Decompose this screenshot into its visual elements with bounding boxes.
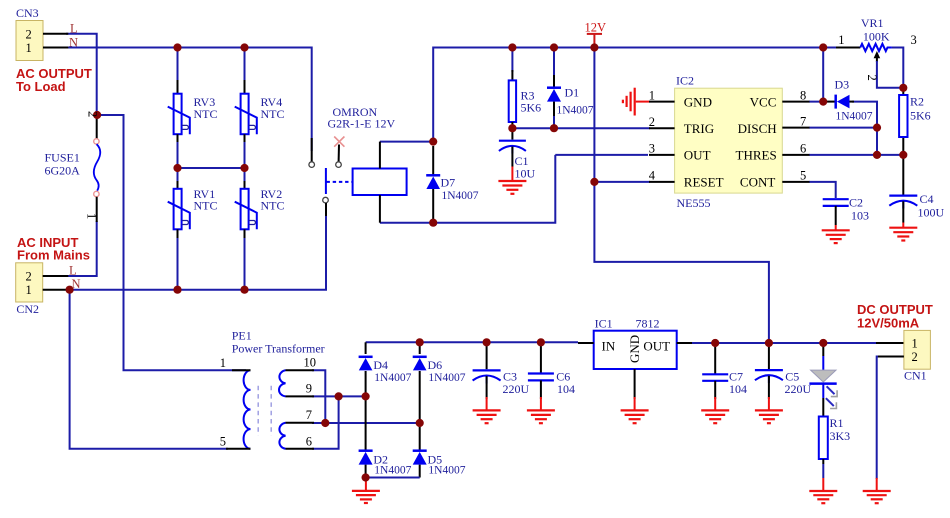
capacitor C2 (823, 199, 849, 229)
svg-text:IC2: IC2 (676, 74, 694, 88)
wire D1 top lead (553, 48, 555, 76)
svg-text:12V: 12V (585, 21, 607, 35)
svg-text:C4: C4 (920, 192, 934, 206)
svg-text:104: 104 (729, 382, 747, 396)
wire THRES pin6 (809, 154, 903, 156)
svg-text:TRIG: TRIG (684, 121, 714, 136)
svg-text:1: 1 (912, 336, 918, 350)
wire D6-D5 link (419, 371, 421, 451)
svg-text:1N4007: 1N4007 (557, 104, 594, 116)
resistor R2 (899, 95, 907, 137)
fuse FUSE1 (94, 115, 101, 222)
svg-text:1: 1 (838, 33, 844, 47)
svg-text:OUT: OUT (643, 339, 670, 354)
svg-text:G2R-1-E 12V: G2R-1-E 12V (328, 116, 396, 130)
wire D6 top lead (419, 342, 421, 354)
op-amp IC2 NE555 box (649, 88, 810, 193)
svg-text:Power Transformer: Power Transformer (232, 342, 325, 356)
wire transformer pin10 riser (312, 370, 325, 423)
svg-text:1N4007: 1N4007 (442, 190, 479, 202)
wire bridge + rail to IC1 IN (366, 341, 578, 343)
ground IC1 (621, 410, 649, 423)
svg-text:9: 9 (306, 381, 312, 395)
diode D3 (823, 95, 854, 109)
regulator IC1 7812 box (578, 331, 692, 410)
diode D7 (426, 175, 440, 189)
wire RV2 top lead (244, 168, 246, 183)
svg-text:CONT: CONT (740, 175, 775, 190)
svg-text:220U: 220U (503, 382, 530, 396)
svg-text:CN2: CN2 (16, 302, 39, 316)
wire relay coil top to D7 top node (380, 141, 433, 143)
diode D4 (359, 357, 373, 371)
svg-text:THRES: THRES (736, 148, 777, 163)
svg-text:CN3: CN3 (16, 6, 39, 20)
svg-text:1: 1 (26, 283, 32, 297)
wire top bus left (CN3 N to relay left contact) (66, 48, 312, 152)
ground CN1 pin2 (863, 478, 891, 503)
wire D5 bottom lead (419, 465, 421, 478)
svg-text:5: 5 (800, 169, 806, 183)
svg-text:NTC: NTC (194, 107, 218, 121)
svg-text:VR1: VR1 (861, 16, 884, 30)
transformer core (258, 386, 271, 436)
svg-text:1N4007: 1N4007 (374, 465, 411, 477)
svg-text:CN1: CN1 (904, 368, 927, 382)
ground C6 (527, 410, 555, 423)
svg-text:10U: 10U (515, 167, 536, 181)
svg-text:N: N (69, 35, 78, 49)
svg-text:L: L (69, 264, 77, 278)
svg-text:IC1: IC1 (595, 317, 613, 331)
wire D7 bottom black lead continuation (432, 146, 434, 175)
svg-text:100U: 100U (918, 206, 945, 220)
wire VR1 pin3 corner (892, 48, 904, 88)
svg-text:D7: D7 (441, 176, 456, 190)
wire CN3 L down to fuse (66, 34, 97, 113)
ground C2 (822, 230, 850, 243)
wire pin9-pin6 link (312, 396, 339, 448)
svg-text:2: 2 (26, 27, 32, 41)
svg-text:6G20A: 6G20A (45, 164, 81, 178)
svg-text:IN: IN (602, 339, 616, 354)
wire RV3 top lead (177, 48, 179, 83)
svg-text:1: 1 (85, 213, 99, 219)
svg-text:FUSE1: FUSE1 (45, 151, 80, 165)
transformer secondary upper (279, 370, 314, 396)
svg-text:D6: D6 (428, 358, 443, 372)
svg-text:DISCH: DISCH (738, 121, 777, 136)
capacitor C6 (528, 342, 554, 410)
svg-text:D1: D1 (565, 86, 580, 100)
wire transformer pin9 to bridge (312, 395, 366, 397)
wire CN2 N down to transformer pin5 (70, 290, 228, 449)
svg-text:7: 7 (800, 114, 806, 128)
wire RV mid row (178, 140, 245, 168)
LED D-led (809, 343, 837, 417)
power ground at 555 pin1 (623, 88, 650, 116)
svg-text:RESET: RESET (684, 175, 724, 190)
wire D3 anode to R2 column (852, 102, 877, 155)
svg-text:1N4007: 1N4007 (428, 465, 465, 477)
connector CN3 (16, 21, 68, 61)
wire RV2 bottom lead (244, 236, 246, 290)
thermistor RV1 (168, 181, 190, 238)
svg-text:103: 103 (851, 209, 869, 223)
svg-text:8: 8 (800, 88, 806, 102)
wire 12V rail down + RESET + to DC rail (594, 48, 769, 344)
svg-text:3K3: 3K3 (830, 429, 851, 443)
svg-text:NE555: NE555 (677, 196, 711, 210)
svg-text:2: 2 (26, 269, 32, 283)
svg-text:2: 2 (86, 111, 100, 117)
ground C7 (701, 410, 729, 423)
svg-text:1: 1 (26, 41, 32, 55)
relay coil OMRON (353, 142, 407, 223)
wire D2 bottom lead (365, 465, 367, 478)
wire TRIG row pin2 (512, 127, 650, 129)
ground C4 (889, 228, 917, 241)
svg-text:100K: 100K (863, 30, 890, 44)
wire CN1 pin2 to ground (877, 357, 901, 480)
wire RESET pin4 (594, 181, 650, 183)
wire D4 bottom lead (365, 371, 367, 451)
thermistor RV3 (168, 80, 190, 142)
connector CN1 (878, 330, 930, 369)
wire fuse bottom to CN2 L (66, 221, 97, 276)
wire bridge bottom rail (366, 477, 420, 479)
12V power symbol (587, 34, 602, 44)
svg-text:NTC: NTC (261, 107, 285, 121)
relay pole (323, 168, 353, 216)
svg-text:VCC: VCC (750, 95, 777, 110)
wire RV4 top lead (244, 48, 246, 83)
svg-text:1N4007: 1N4007 (428, 372, 465, 384)
wire DC rail right of IC1 (690, 342, 878, 344)
svg-text:104: 104 (557, 382, 575, 396)
svg-text:1: 1 (220, 356, 226, 370)
svg-text:5K6: 5K6 (910, 109, 931, 123)
svg-text:4: 4 (649, 169, 656, 183)
diode D1 (547, 75, 561, 128)
relay contact right with X (334, 137, 344, 168)
wire bridge top corner (365, 342, 367, 354)
svg-text:2: 2 (865, 75, 879, 81)
diode D5 (413, 451, 427, 465)
relay contact left (309, 138, 315, 167)
potentiometer VR1 (836, 44, 901, 88)
svg-text:D3: D3 (835, 78, 850, 92)
capacitor C5 (755, 343, 783, 410)
diode D6 (413, 357, 427, 371)
svg-text:6: 6 (800, 142, 806, 156)
wire DISCH pin7 (809, 127, 877, 129)
wire R2 bottom to THRES (902, 137, 904, 155)
ground bridge (352, 478, 380, 504)
wire N rail bottom (66, 214, 326, 290)
svg-text:1: 1 (649, 88, 655, 102)
svg-text:To Load: To Load (16, 79, 66, 94)
wire 555 OUT pin3 (555, 154, 648, 156)
svg-text:5: 5 (220, 435, 226, 449)
wire C4 top lead (902, 155, 904, 195)
capacitor C1 (499, 128, 526, 180)
svg-text:GND: GND (684, 95, 712, 110)
svg-text:L: L (70, 22, 78, 36)
capacitor C4 (889, 196, 917, 227)
resistor R3 (509, 70, 516, 128)
wire D7 top bus riser (433, 48, 836, 142)
svg-text:6: 6 (306, 434, 312, 448)
svg-text:5K6: 5K6 (521, 101, 542, 115)
svg-text:1N4007: 1N4007 (836, 111, 873, 123)
svg-text:PE1: PE1 (232, 329, 252, 343)
connector CN2 (16, 263, 69, 302)
svg-text:1N4007: 1N4007 (374, 372, 411, 384)
transformer PE1 primary (226, 370, 251, 449)
svg-text:2: 2 (649, 115, 655, 129)
svg-text:R2: R2 (910, 95, 924, 109)
thermistor RV2 (235, 181, 257, 238)
capacitor C3 (473, 342, 501, 410)
wire VCC pin8 riser (809, 48, 823, 102)
svg-text:10: 10 (304, 356, 317, 370)
wire relay coil bottom to OUT net (380, 155, 555, 223)
wire transformer pin7 to bridge (312, 422, 420, 424)
diode D2 (359, 451, 373, 465)
svg-text:NTC: NTC (194, 199, 218, 213)
capacitor C7 (702, 343, 728, 410)
svg-text:7: 7 (306, 408, 312, 422)
wire R3 top lead (511, 48, 513, 73)
svg-text:GND: GND (627, 335, 642, 363)
ground C1 (498, 181, 526, 194)
svg-text:NTC: NTC (261, 199, 285, 213)
svg-text:N: N (72, 277, 81, 291)
svg-text:D4: D4 (373, 358, 388, 372)
transformer secondary lower (279, 423, 314, 449)
ground C5 (755, 410, 783, 423)
svg-text:OUT: OUT (684, 148, 711, 163)
resistor R1 (819, 417, 828, 491)
svg-text:2: 2 (912, 350, 918, 364)
svg-text:From Mains: From Mains (17, 247, 90, 262)
wire CN1 pin1 stub (876, 342, 904, 344)
svg-text:220U: 220U (785, 382, 812, 396)
wire RV1 bottom lead (177, 236, 179, 290)
wire fuse top to transformer primary column (97, 115, 246, 370)
svg-text:7812: 7812 (636, 317, 660, 331)
svg-text:3: 3 (649, 142, 655, 156)
svg-text:C2: C2 (849, 196, 863, 210)
svg-text:3: 3 (911, 33, 917, 47)
ground R1 (809, 491, 837, 503)
ground C3 (473, 410, 501, 423)
wire R2 top stub (902, 88, 904, 95)
svg-text:R1: R1 (830, 416, 844, 430)
wire CONT pin5 to C2 (809, 182, 836, 198)
wire RV1 top lead (177, 168, 179, 183)
svg-text:12V/50mA: 12V/50mA (857, 316, 920, 331)
thermistor RV4 (235, 80, 257, 142)
